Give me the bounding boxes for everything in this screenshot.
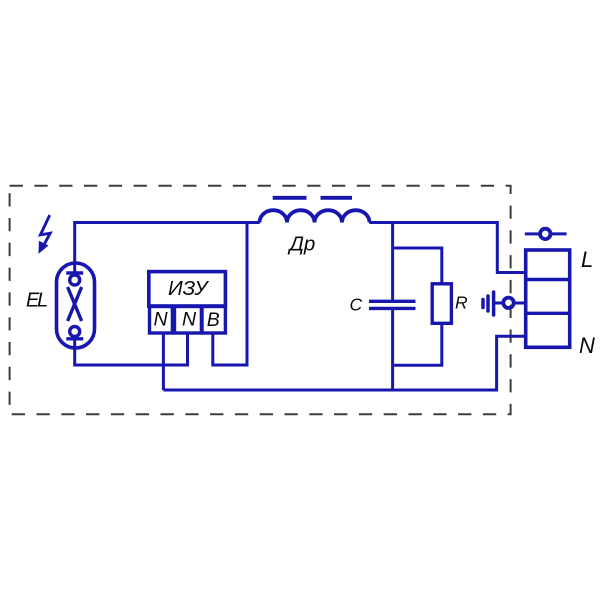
wire lamp top to choke (top bus) — [75, 223, 260, 264]
lamp EL top electrode circle — [70, 275, 80, 285]
lamp EL bottom electrode bar — [66, 337, 83, 340]
lamp EL bottom electrode lead — [73, 336, 76, 348]
wire ignitor N1 to bottom bus — [162, 333, 165, 390]
ground terminal circle — [503, 298, 513, 308]
ignitor box — [149, 272, 226, 306]
svg-text:R: R — [455, 292, 468, 312]
svg-text:N: N — [182, 309, 197, 331]
choke core dash 1 — [273, 196, 307, 200]
svg-text:ИЗУ: ИЗУ — [168, 277, 209, 300]
ground wire circle to block — [515, 302, 526, 305]
svg-text:Др: Др — [288, 233, 316, 256]
lamp EL envelope — [57, 263, 95, 348]
svg-text:N: N — [154, 309, 169, 331]
svg-text:EL: EL — [26, 290, 47, 312]
ignitor terminal cell N1 — [150, 307, 173, 334]
ground symbol bars — [483, 292, 494, 315]
wire capacitor branch bottom — [391, 310, 394, 390]
wire choke to terminal block L — [369, 223, 526, 273]
lamp EL bottom electrode circle — [70, 327, 80, 337]
svg-text:B: B — [207, 309, 220, 331]
terminal block — [526, 250, 570, 347]
ignitor terminal cell N2 — [175, 307, 202, 334]
svg-text:C: C — [350, 295, 363, 315]
svg-text:N: N — [579, 333, 595, 358]
choke core dash 2 — [321, 196, 353, 200]
wire lamp bottom to ignitor terminal N2 — [75, 333, 188, 365]
resistor R body — [432, 284, 451, 324]
ignitor terminal cell B — [202, 307, 225, 334]
svg-text:L: L — [581, 247, 593, 272]
terminal block divider 1 — [526, 278, 570, 281]
top terminal lead left — [525, 232, 540, 235]
ground wire to circle — [495, 302, 502, 305]
lamp EL arc X left stroke — [68, 287, 82, 321]
lamp EL top electrode lead — [73, 263, 76, 275]
wire ignitor B to top bus — [213, 223, 247, 366]
wire resistor branch top — [393, 248, 442, 284]
top terminal lead right — [550, 232, 566, 235]
choke Dr winding — [260, 210, 370, 222]
capacitor C top plate — [369, 300, 416, 303]
lightning bolt — [39, 215, 50, 252]
lamp EL arc X right stroke — [68, 287, 82, 321]
lamp EL top electrode bar — [66, 271, 83, 274]
bottom bus wire — [163, 336, 526, 390]
top terminal circle — [540, 229, 550, 239]
wire capacitor branch top — [391, 223, 394, 301]
terminal block divider 2 — [526, 312, 570, 315]
capacitor C bottom plate — [369, 307, 416, 310]
wire resistor branch bottom — [393, 323, 442, 365]
enclosure dashed border — [10, 186, 511, 415]
